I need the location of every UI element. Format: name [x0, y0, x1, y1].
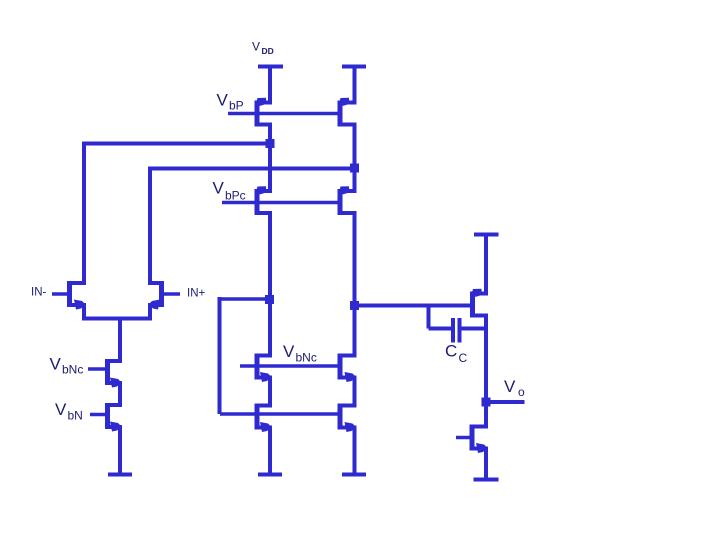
transistor M10 (NMOS tail VbN) [105, 403, 122, 432]
capacitor CC plates [451, 318, 462, 343]
wire M5 drain down to node A [268, 125, 272, 192]
transistor M6 (PMOS VbP right) [338, 98, 357, 127]
svg-text:V: V [217, 91, 229, 110]
svg-text:C: C [445, 342, 457, 361]
svg-text:DD: DD [262, 46, 274, 56]
transistor M11 (NMOS mirror left) [255, 404, 273, 433]
wire node B to M2 drain [150, 167, 355, 171]
wire tail source bus [82, 317, 152, 321]
transistor M13 (PMOS output) [470, 289, 488, 318]
ground right mirror [342, 473, 366, 477]
svg-text:bNc: bNc [62, 363, 83, 377]
wire node D to M13 gate [355, 304, 471, 308]
svg-text:V: V [504, 377, 516, 396]
wire M9 gate stub [88, 367, 107, 371]
wire mirror gate bus [220, 412, 340, 416]
node C junction dot (diode connection tap) [265, 295, 274, 304]
label Vo [504, 377, 525, 399]
svg-text:C: C [459, 351, 468, 365]
svg-text:V: V [283, 342, 295, 361]
wire M10 gate stub [90, 413, 107, 417]
ground left mirror [258, 473, 282, 477]
wire M4 source to M12 drain [353, 378, 357, 408]
svg-text:IN+: IN+ [187, 288, 206, 300]
ground output [474, 478, 499, 482]
svg-text:IN-: IN- [31, 287, 47, 299]
transistor M2 (NMOS input IN+) [148, 281, 164, 310]
label VDD [252, 40, 274, 57]
svg-text:V: V [50, 355, 62, 374]
label VbNc left [50, 355, 84, 377]
transistor M9 (NMOS tail cascode VbNc) [105, 359, 122, 388]
wire M6 drain down to node B [353, 125, 357, 192]
wire VDD to M5 source [268, 65, 272, 104]
wire node A to M1 drain [84, 142, 270, 146]
wire M10 source to ground [118, 427, 122, 475]
svg-text:V: V [252, 40, 260, 54]
transistor M8 (PMOS cascode VbPc right) [338, 186, 357, 215]
wire VDD to M6 source [353, 65, 357, 104]
wire output node stub [486, 400, 525, 404]
wire M9 source to M10 drain [118, 383, 122, 405]
transistor M5 (PMOS VbP left) [255, 98, 273, 127]
wire M12 source to ground [353, 428, 357, 475]
transistor M14 (NMOS output) [470, 425, 489, 454]
wire VbNc cascode gate bus [240, 364, 340, 368]
svg-text:V: V [55, 400, 67, 419]
label CC [445, 342, 468, 366]
transistor M3 (NMOS cascode left) [255, 354, 273, 383]
label IN- [31, 287, 47, 299]
transistor M4 (NMOS cascode right) [338, 354, 357, 383]
wire M13 drain to output node [484, 316, 488, 427]
wire M1 drain vertical [82, 142, 86, 284]
wire node C horizontal [220, 297, 270, 301]
label VbP [217, 91, 244, 113]
node B junction dot [350, 164, 359, 173]
capacitor CC right wire [462, 327, 487, 331]
wire M14 gate stub [456, 436, 471, 440]
wire M7 drain down to NMOS cascode [268, 213, 272, 356]
wire feedback node C to mirror gates [218, 297, 222, 414]
node D junction dot (output of first stage) [350, 301, 359, 310]
svg-text:bN: bN [68, 409, 83, 423]
svg-text:bP: bP [229, 99, 244, 113]
label VbN [55, 400, 83, 423]
transistor M12 (NMOS mirror right) [338, 404, 357, 433]
transistor M7 (PMOS cascode VbPc left) [255, 186, 273, 215]
svg-text:bNc: bNc [296, 351, 317, 365]
VDD rail T-bar right [342, 65, 366, 69]
VDD rail T-bar output branch [474, 233, 499, 237]
ground tail [108, 473, 132, 477]
VDD rail T-bar left [258, 65, 283, 69]
wire M8 drain down to NMOS cascode right [353, 213, 357, 356]
svg-text:bPc: bPc [225, 189, 246, 203]
wire VbP gate bus [228, 112, 340, 116]
wire M3 source to M11 drain [268, 378, 272, 408]
wire M11 source to ground [268, 428, 272, 475]
wire IN+ gate stub [163, 292, 181, 296]
node Vo junction dot [482, 398, 491, 407]
capacitor CC left tap wire [429, 306, 452, 329]
wire M2 drain vertical [148, 167, 152, 284]
wire M14 source to ground [484, 449, 488, 480]
label IN+ [187, 288, 206, 300]
wire VbPc gate bus [222, 201, 340, 205]
label VbNc middle [283, 342, 317, 365]
wire tail bus down to M9 [118, 319, 122, 362]
svg-text:V: V [213, 179, 225, 198]
svg-text:o: o [518, 385, 525, 399]
node A junction dot [266, 139, 275, 148]
wire IN- gate stub [52, 292, 69, 296]
wire M2 source to tail bus [148, 305, 152, 319]
label VbPc [213, 179, 246, 203]
wire VDD to M13 source [484, 235, 488, 294]
wire M1 source to tail bus [82, 305, 86, 319]
transistor M1 (NMOS input IN-) [67, 281, 86, 310]
